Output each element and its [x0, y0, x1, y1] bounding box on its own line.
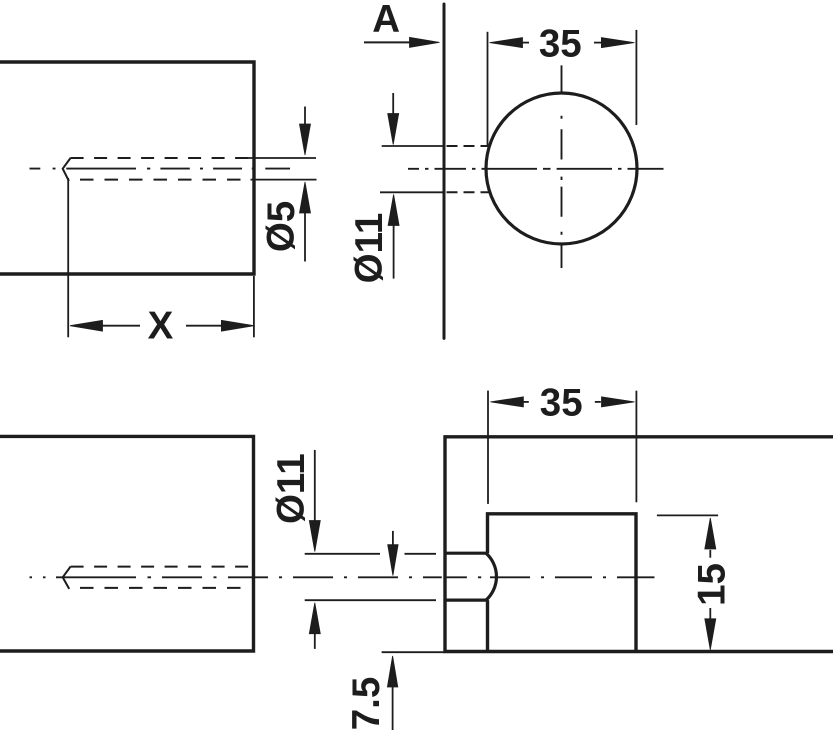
Ø11 edge hole top line — [445, 552, 486, 555]
Ø11 upper dimension arrow — [392, 93, 394, 114]
15 extension line — [657, 514, 718, 516]
35 extension line right — [635, 30, 637, 125]
panel P1 outline — [0, 62, 254, 274]
Ø11 lower dimension arrow — [388, 195, 399, 226]
center line (axis) — [30, 168, 291, 170]
Ø11 edge hole bottom line — [445, 598, 486, 601]
vertical center line — [561, 65, 563, 268]
panel P1 outline (lower) — [0, 436, 254, 651]
Ø11 extension line top (two segments, gap at 7.5 arrow) — [305, 553, 380, 555]
35 extension line left (lower) — [487, 391, 489, 504]
panel P2 outline (lower) — [445, 437, 833, 652]
cup hole circle Ø35 — [486, 93, 637, 244]
panel P2 edge line (section plane) — [443, 4, 446, 338]
break-through arc — [486, 553, 496, 600]
cup hole left wall lower part — [486, 600, 489, 651]
svg-text:Ø5: Ø5 — [260, 201, 303, 252]
hidden bolt line bottom — [80, 587, 250, 589]
35 dimension line with arrows — [490, 38, 523, 48]
drill tip chevron (lower) — [63, 567, 71, 589]
35 extension line left — [487, 32, 489, 146]
15 lower dimension arrow — [709, 608, 711, 619]
Ø11 extension line bottom — [380, 191, 443, 193]
Ø5 extension line bottom — [251, 179, 317, 181]
35 dimension line with arrows (lower) — [490, 397, 523, 407]
svg-text:Ø11: Ø11 — [348, 213, 391, 284]
7.5 lower dimension arrow — [387, 656, 397, 687]
svg-text:7.5: 7.5 — [345, 677, 388, 730]
7.5 upper dimension arrow (points to axis) — [392, 531, 394, 545]
svg-text:35: 35 — [539, 23, 582, 66]
Ø11 lower dimension arrow (lower view) — [309, 603, 320, 634]
drill tip chevron — [63, 158, 71, 181]
svg-text:15: 15 — [690, 563, 733, 606]
15 upper dimension arrow — [705, 518, 716, 549]
hidden hole line top (Ø5 pilot) — [71, 157, 252, 159]
hidden bolt line top — [71, 566, 252, 568]
7.5 extension line (panel bottom) — [382, 651, 444, 653]
Ø11 hidden line top — [447, 145, 490, 147]
X extension line left — [67, 178, 69, 337]
horizontal center line — [408, 168, 664, 170]
svg-text:35: 35 — [540, 381, 583, 424]
Ø5 extension line top — [242, 157, 316, 159]
Ø11 extension line bottom — [305, 599, 436, 601]
X dimension line with arrows — [70, 320, 103, 331]
common center line (axis through both panels) — [30, 576, 655, 578]
cup hole walls (35 wide, depth 15) — [488, 514, 637, 652]
svg-text:X: X — [148, 305, 174, 348]
Ø5 lower dimension arrow — [300, 182, 311, 213]
Ø11 extension line top — [382, 145, 443, 147]
hidden hole line bottom (Ø5 pilot) — [80, 179, 250, 181]
Ø11 upper dimension arrow (lower view) — [314, 450, 316, 521]
Ø5 upper dimension arrow — [304, 107, 306, 127]
Ø11 hidden line bottom — [447, 191, 490, 193]
svg-text:A: A — [372, 0, 400, 41]
35 extension line right (lower) — [635, 391, 637, 503]
section arrow A — [364, 41, 412, 43]
X extension line right — [253, 276, 255, 337]
svg-text:Ø11: Ø11 — [270, 453, 313, 524]
